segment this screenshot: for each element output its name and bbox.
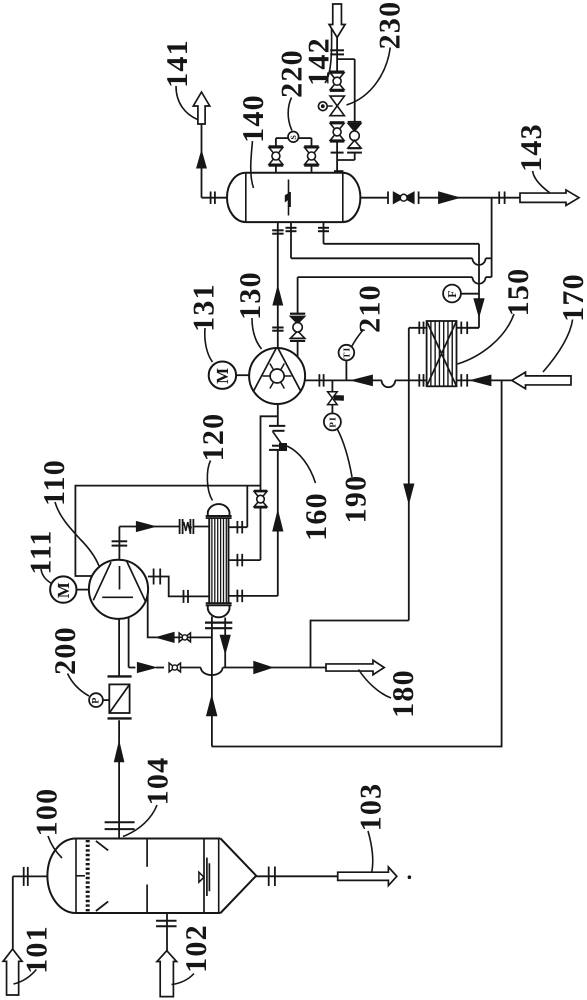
- nozzle N1: pump 130 discharge into vessel 140: [277, 222, 279, 348]
- leader 150: [458, 314, 515, 364]
- svg-text:190: 190: [340, 475, 373, 524]
- 150 nozzle stubs and flanges: [409, 327, 427, 329]
- svg-text:F: F: [445, 289, 459, 298]
- ball valve on 143 line: [394, 192, 404, 203]
- heat exchanger 150 (hatched block): [427, 321, 457, 386]
- handle of needle valve: [334, 396, 343, 401]
- relief valve on pump 130 discharge: [290, 313, 305, 315]
- svg-text:130: 130: [234, 271, 267, 320]
- leader 200: [68, 674, 90, 697]
- stream arrow 102 (hollow, up): [157, 951, 177, 997]
- flow arrow up from vessel 100: [114, 742, 123, 762]
- internal baffle: [146, 840, 148, 867]
- svg-text:140: 140: [237, 94, 270, 143]
- wire: to 180 outlet: [223, 667, 326, 669]
- vessel 100 internals: packing band: [86, 840, 90, 912]
- leader 102: [172, 974, 195, 985]
- svg-text:M: M: [213, 367, 232, 384]
- flange on 141 line: [210, 191, 212, 204]
- wire: elbow to 180 outlet: [311, 621, 409, 668]
- filter 200: [108, 675, 132, 677]
- stream arrow 180 (hollow, right): [326, 660, 384, 675]
- flow arrow up into vessel 140: [273, 287, 283, 306]
- block valve V1 on 142 line: [330, 71, 345, 73]
- actuator bubble of control valve: [318, 102, 327, 111]
- flow arrow down into 150: [474, 299, 484, 317]
- wire: pump 110 drain line: [148, 594, 212, 637]
- leader 120: [207, 461, 212, 501]
- internal wall: [203, 840, 205, 913]
- svg-text:230: 230: [374, 1, 407, 50]
- inlet 101: [13, 875, 48, 877]
- flow arrow to 180: [254, 662, 272, 674]
- instrument P: [89, 693, 103, 707]
- svg-text:180: 180: [387, 669, 420, 718]
- 120 left nozzle with expansion joint: [119, 526, 179, 528]
- wire: F tap: [461, 293, 479, 295]
- svg-text:170: 170: [557, 273, 587, 322]
- outlet 103: [256, 875, 338, 877]
- wire: gauge header: [276, 137, 288, 139]
- pump/blower 130: [249, 348, 305, 404]
- wire: P tap: [103, 699, 109, 701]
- leader 131: [205, 328, 213, 362]
- wire: motor link: [236, 374, 249, 376]
- expansion joint zigzag: [183, 522, 192, 531]
- svg-text:101: 101: [21, 925, 54, 974]
- wire: branch to bypass: [337, 58, 355, 60]
- wire: bypass with shutoff: [354, 59, 356, 122]
- internal stub: [76, 875, 85, 877]
- drain valve 1: [179, 633, 185, 642]
- pipe junction with jump at 211.7: [201, 668, 223, 676]
- flow arrow right: [137, 663, 156, 673]
- flow arrow up riser: [207, 696, 217, 716]
- leader 110: [55, 502, 99, 566]
- flow arrow toward pump 130: [352, 375, 373, 386]
- leader 142: [325, 29, 332, 83]
- flange pair before 143 arrow: [498, 191, 500, 204]
- svg-text:210: 210: [354, 284, 387, 333]
- stem to vessel top (left): [275, 166, 277, 173]
- ink dot: [408, 876, 411, 879]
- wire: line B up to 143 line: [491, 198, 493, 277]
- leader 111: [41, 569, 52, 584]
- instrument PI 190: [324, 413, 341, 430]
- wire: 141 outlet line from vessel 140 left head: [201, 124, 203, 198]
- flow arrow up on 141 line: [197, 151, 207, 168]
- bypass valve beside 120: [254, 490, 267, 492]
- svg-text:160: 160: [300, 492, 333, 541]
- svg-text:M: M: [54, 581, 73, 598]
- 120 right nozzle R1 with elbow: [229, 526, 248, 528]
- leader 143: [533, 171, 550, 193]
- pump 110: [89, 560, 148, 619]
- instrument F (flow): [443, 285, 461, 303]
- svg-text:150: 150: [502, 268, 535, 317]
- gauge valve right on vessel 140 top: [304, 145, 319, 147]
- leader 130: [252, 318, 262, 349]
- svg-text:111: 111: [25, 529, 58, 574]
- motor M 111: [50, 576, 76, 602]
- control valve on 142 line: [330, 96, 344, 106]
- wire: pump 110 bottom branch line: [118, 619, 120, 676]
- leader 160: [287, 446, 316, 483]
- wire: from 170 branch down and across: [212, 380, 502, 746]
- internal diagonal top: [96, 841, 108, 851]
- leader 103: [368, 831, 373, 872]
- svg-text:120: 120: [197, 413, 230, 462]
- wire: from 150 top-left nozzle down to 180: [408, 328, 410, 621]
- svg-text:131: 131: [188, 283, 221, 332]
- drain valve 2: [169, 663, 175, 672]
- instrument TI 210: [345, 360, 347, 380]
- flow arrow down: [404, 484, 414, 503]
- leader 170: [543, 320, 573, 373]
- wire: 142 main line: [336, 38, 338, 73]
- svg-text:100: 100: [31, 788, 64, 837]
- flow arrow up to pump 130: [273, 511, 283, 531]
- flow arrow toward pump 110: [156, 632, 174, 642]
- wire: line A down to exchanger 150: [478, 244, 480, 328]
- wire: long recycle line to pump 110 suction: [75, 486, 260, 576]
- svg-text:PI: PI: [327, 416, 337, 427]
- restriction 160: [269, 425, 285, 427]
- vessel 140 (horizontal drum): [246, 173, 343, 222]
- stream arrow 103 (hollow, right): [338, 867, 397, 886]
- leader 100: [48, 836, 62, 858]
- leader 220: [288, 98, 292, 131]
- svg-text:141: 141: [161, 39, 194, 88]
- wire: branch to bypass valve: [261, 416, 278, 491]
- wire: suction line pump 130: [305, 379, 382, 381]
- leader 180: [359, 670, 392, 699]
- internal diagonal bottom: [96, 901, 108, 911]
- svg-text:102: 102: [180, 924, 213, 973]
- wire: pump 110 discharge to 120: [148, 577, 209, 597]
- wire: pump 110 top nozzle: [118, 527, 120, 560]
- svg-text:S: S: [289, 134, 298, 140]
- nozzle N3 and header line 1: [323, 222, 325, 244]
- bypass relief valve (black/white): [348, 124, 361, 132]
- svg-text:110: 110: [38, 459, 71, 506]
- vessel 100 (horizontal tank with cone): [76, 838, 221, 840]
- heat exchanger 120 (vertical shell and tube): [208, 504, 230, 516]
- svg-text:143: 143: [515, 123, 548, 172]
- leader 190: [338, 430, 353, 478]
- svg-text:TI: TI: [341, 347, 351, 359]
- flow arrow into 120: [136, 522, 155, 532]
- leader 140: [251, 141, 254, 188]
- nozzle N2 and header line 2: [290, 222, 292, 258]
- wire: suction line 104: [118, 720, 120, 838]
- flow arrow on 143 line: [439, 192, 460, 204]
- leader 101: [14, 970, 37, 985]
- flow arrow 170 into 150: [471, 375, 491, 386]
- wire: 142 line into vessel: [336, 142, 338, 173]
- stream arrow 142 (hollow, down): [329, 4, 345, 38]
- gauge valve left on vessel 140 top: [269, 145, 284, 147]
- inlet 102: [166, 913, 168, 951]
- stem to vessel top (right): [311, 166, 313, 173]
- svg-text:103: 103: [355, 783, 388, 832]
- stream arrow 170 (hollow, left): [512, 372, 571, 389]
- 120 right nozzle R2 to bypass valve: [229, 559, 261, 561]
- relief line 3 from pump 130: [297, 277, 299, 314]
- stream arrow 143 (hollow, right): [520, 190, 579, 206]
- leader 104: [123, 805, 157, 837]
- wire: pump 130 bottom line: [277, 404, 279, 426]
- needle valve to PI 190: [331, 380, 333, 391]
- level mark: [199, 872, 204, 882]
- block valve V2 on 142 line: [330, 121, 345, 123]
- wire: motor link 111: [77, 589, 89, 591]
- 120 bottom nozzle flange: [211, 617, 213, 747]
- stream arrow 141 (hollow, up): [193, 92, 210, 124]
- motor M 131: [209, 362, 236, 389]
- leader 210: [352, 330, 364, 347]
- svg-text:P: P: [91, 696, 102, 703]
- instrument 220 (level switch) circle: [288, 132, 299, 143]
- flow arrow down from 120: [220, 635, 230, 653]
- svg-text:104: 104: [142, 757, 175, 806]
- wire: 143 line from vessel 140 right head: [360, 197, 388, 199]
- leader 141: [176, 86, 198, 120]
- svg-text:200: 200: [49, 626, 82, 675]
- leader 230: [347, 48, 391, 106]
- 120 right nozzle R3: [229, 595, 278, 597]
- stream arrow 101 (hollow, up): [3, 949, 22, 995]
- vessel 140 internal level stick: [288, 180, 290, 216]
